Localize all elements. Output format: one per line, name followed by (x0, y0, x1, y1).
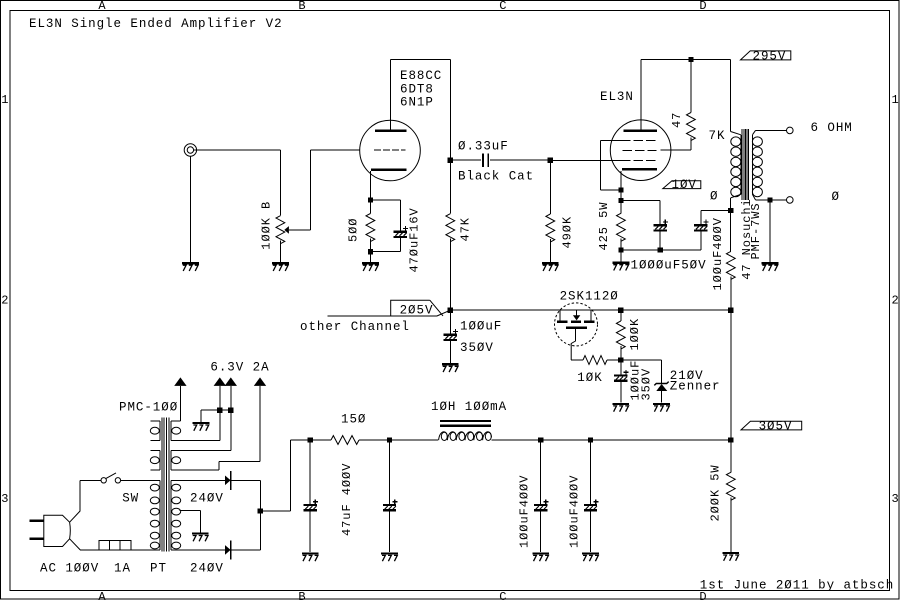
node grid junction (548, 158, 553, 163)
node OPT bottom feed (728, 208, 733, 213)
label 100uF400V (711, 217, 725, 290)
ground at EL3N cathode (613, 263, 630, 271)
label 425 5W (597, 202, 611, 251)
label 100uF 350V gate (629, 360, 654, 401)
label SW (122, 491, 139, 505)
label 100K B (259, 201, 273, 250)
ground at gate cap (612, 404, 629, 412)
svg-text:1ØØØuF5ØV: 1ØØØuF5ØV (631, 259, 707, 273)
label Black Cat (458, 170, 534, 184)
svg-text:47ØuF16V: 47ØuF16V (408, 207, 422, 272)
resistor 500 (366, 214, 375, 242)
capacitor 47uF 400V a (304, 440, 318, 552)
svg-text:Ø: Ø (832, 190, 840, 204)
heater lead arrow 3 (171, 377, 237, 450)
resistor 150 (331, 436, 359, 445)
transformer core (742, 129, 749, 200)
capacitor 100uF400V b (584, 440, 598, 552)
label 1000uF50V (631, 259, 707, 273)
capacitor 100uF 350V gate (614, 360, 628, 403)
flag 205V (391, 300, 443, 318)
label 100uF400V a (518, 475, 532, 548)
capacitor 47uF 400V b (383, 440, 397, 552)
svg-text:1ØH 1ØØmA: 1ØH 1ØØmA (431, 400, 507, 414)
svg-text:PT: PT (150, 562, 167, 576)
MOSFET Q1 2SK1120 (555, 303, 598, 360)
svg-text:49ØK: 49ØK (561, 216, 575, 249)
node B+ 305V to 205V regulator (728, 308, 733, 313)
resistor 47K (446, 160, 455, 310)
pentode V2 EL3N (610, 120, 671, 181)
wire plate to top rail (390, 59, 450, 130)
ground at cap b (381, 553, 398, 561)
capacitor 0.33uF coupling (450, 154, 550, 167)
svg-text:6 OHM: 6 OHM (811, 121, 853, 135)
output jack 6 OHM (787, 127, 794, 134)
svg-text:B: B (298, 590, 306, 600)
wire resistor bottom to ground (369, 239, 371, 263)
svg-text:5ØØ: 5ØØ (347, 218, 361, 242)
output jack 0 (787, 197, 794, 204)
heater lead arrow 1 (171, 377, 187, 421)
label AC 100V 1A PT (40, 562, 167, 576)
capacitor 1000uF50V (654, 220, 668, 250)
node filter cap 4 (588, 437, 593, 442)
transformer T1 PMC-100 (150, 418, 180, 552)
wire grid node to EL3N g1 (550, 159, 621, 161)
svg-text:7K: 7K (709, 129, 726, 143)
wire cathode node to 1000uF (621, 200, 660, 225)
node filter cap 1 (308, 437, 313, 442)
svg-text:15Ø: 15Ø (341, 413, 366, 427)
wire pot top drop (279, 150, 281, 216)
wire diode1 to node (231, 480, 261, 550)
label 6 OHM (811, 121, 853, 135)
heater lead arrow 4 (171, 377, 266, 470)
ground at cap d (582, 553, 599, 561)
svg-text:2: 2 (1, 294, 9, 308)
label 240V top (190, 491, 224, 505)
svg-text:B: B (298, 0, 306, 13)
svg-text:A: A (98, 590, 106, 600)
node 1000uF bottom (658, 247, 663, 252)
svg-text:other Channel: other Channel (300, 320, 410, 334)
svg-text:2ØØK 5W: 2ØØK 5W (709, 464, 723, 521)
capacitor 470uF16V (394, 226, 408, 237)
svg-text:6.3V 2A: 6.3V 2A (210, 360, 269, 374)
diode D1 (225, 471, 231, 490)
svg-text:PMF-7WS: PMF-7WS (749, 202, 763, 259)
svg-text:1ØØuF4ØØV: 1ØØuF4ØØV (518, 475, 532, 548)
wire jack ground drop (189, 156, 191, 262)
wire B+ vertical to PSU rail (730, 310, 732, 440)
ground at input jack (182, 263, 199, 271)
svg-text:1ØK: 1ØK (577, 371, 602, 385)
label 47 (670, 112, 684, 128)
rail 205V/305V (450, 309, 731, 311)
svg-text:1ØØuF4ØØV: 1ØØuF4ØØV (711, 217, 725, 290)
potentiometer 100K B (276, 216, 310, 244)
flag 295V (741, 49, 791, 63)
triode V1 E88CC (360, 120, 421, 181)
wire wiper up to grid (310, 150, 360, 230)
svg-text:2SK112Ø: 2SK112Ø (560, 290, 619, 304)
ground at zener (653, 404, 670, 412)
node cathode g3 tie (618, 187, 623, 192)
node heater gnd a (217, 408, 222, 413)
svg-text:3: 3 (1, 492, 9, 506)
switch SW (101, 473, 121, 483)
svg-text:Zenner: Zenner (670, 380, 721, 394)
ground at centre tap (192, 534, 209, 542)
resistor 425 5W cathode (617, 213, 626, 250)
wire switch to primary (121, 479, 160, 481)
label 200K 5W (709, 464, 723, 521)
resistor 490K grid leak (546, 160, 555, 262)
svg-text:C: C (499, 0, 507, 13)
svg-text:EL3N Single Ended Amplifier V2: EL3N Single Ended Amplifier V2 (29, 17, 283, 31)
wire HV bottom to diode (171, 549, 225, 551)
ground at secondary (762, 263, 779, 271)
label 100uF400V b (568, 475, 582, 548)
label 210V Zenner (670, 369, 721, 394)
svg-text:6DT8: 6DT8 (400, 82, 434, 96)
wire gate node to zener (621, 360, 662, 384)
node cathode bottom (368, 249, 373, 254)
label 0.33uF (458, 140, 509, 154)
label 47uF 400V (340, 463, 354, 536)
resistor 200K 5W bleeder (726, 440, 735, 552)
label 240V bottom (190, 562, 224, 576)
label 10K (577, 371, 602, 385)
label 7K (709, 129, 726, 143)
ground at pot (272, 263, 289, 271)
wire plug top to switch (70, 480, 101, 522)
heater lead arrow 2 (171, 377, 226, 440)
svg-text:47uF 4ØØV: 47uF 4ØØV (340, 463, 354, 536)
wire secondary ground drop (769, 200, 771, 262)
label 47K (459, 217, 473, 241)
rail choke to 305V (491, 439, 730, 441)
capacitor 100uF400V output stage (694, 210, 708, 250)
svg-text:E88CC: E88CC (400, 69, 442, 83)
wire g3 bracket to cathode (600, 140, 621, 190)
flag 305V (741, 419, 802, 433)
label E88CC 6DT8 6N1P (400, 69, 442, 110)
wire rectifier to filter (260, 440, 331, 511)
choke 10H 100mA (439, 421, 492, 441)
wire 100uF to OPT bottom (701, 209, 731, 211)
label 100K (628, 318, 642, 351)
wire fuse to primary (131, 549, 160, 551)
date/author text (700, 579, 894, 593)
svg-text:EL3N: EL3N (600, 90, 634, 104)
wire EL3N cathode drop (620, 171, 622, 213)
svg-text:35ØV: 35ØV (639, 368, 653, 401)
svg-text:24ØV: 24ØV (190, 491, 224, 505)
wire EL3N plate to rail (641, 59, 731, 130)
flag 10V (663, 178, 701, 192)
label EL3N (600, 90, 634, 104)
svg-text:3: 3 (892, 492, 900, 506)
svg-text:A: A (98, 0, 106, 13)
resistor 47 B+ dropper (726, 251, 735, 310)
label 6.3V 2A (210, 360, 269, 374)
ground at cap a (302, 553, 319, 561)
svg-text:47K: 47K (459, 217, 473, 241)
label 100uF (460, 320, 502, 334)
node heater gnd b (228, 408, 233, 413)
label PMC-100 (119, 401, 178, 415)
svg-text:1: 1 (1, 93, 9, 107)
resistor 47 screen (661, 59, 696, 150)
title text (29, 17, 283, 31)
zener diode 210V (654, 382, 668, 403)
label 470uF16V (408, 207, 422, 272)
node filter cap 3 (538, 437, 543, 442)
label 0 left (710, 189, 718, 203)
svg-text:1ØØuF4ØØV: 1ØØuF4ØØV (568, 475, 582, 548)
ground at cathode resistor (362, 263, 379, 271)
wire cathode drop (369, 171, 371, 214)
label 0 right (832, 190, 840, 204)
resistor 100K bias (616, 310, 625, 360)
svg-text:AC 1ØØV: AC 1ØØV (40, 562, 99, 576)
svg-text:425 5W: 425 5W (597, 202, 611, 251)
AC plug P1 (30, 515, 71, 546)
wire plug bottom to fuse (70, 539, 99, 550)
wire diode2 to node (231, 549, 261, 551)
transformer T2 output 7K primary (731, 59, 741, 251)
bottom tie rail cathode network (621, 249, 701, 251)
resistor 10K gate (571, 356, 621, 365)
svg-text:47: 47 (670, 112, 684, 128)
node screen feed on rail (688, 57, 693, 62)
label 10H 100mA (431, 400, 507, 414)
svg-text:Black Cat: Black Cat (458, 170, 534, 184)
svg-text:PMC-1ØØ: PMC-1ØØ (119, 401, 178, 415)
node gate bias (618, 357, 623, 362)
node cathode top (368, 198, 373, 203)
wire bypass cap bottom (370, 237, 400, 252)
wire cathode node to bypass cap (370, 200, 400, 232)
rail 150 to choke (359, 439, 438, 441)
node 425 bottom (618, 247, 623, 252)
svg-text:6N1P: 6N1P (400, 96, 434, 110)
ground at heater (193, 423, 210, 431)
capacitor 100uF400V a (534, 440, 548, 552)
node secondary ground tie (767, 197, 772, 202)
ground at reservoir (442, 364, 459, 372)
diode D2 (225, 540, 231, 559)
node rectifier output (258, 508, 263, 513)
wire jack to pot top (194, 149, 281, 151)
node plate/coupling junction (448, 158, 453, 163)
input jack J1 (184, 144, 196, 156)
wire HV centre tap (180, 510, 201, 532)
node filter cap 2 (387, 437, 392, 442)
svg-text:Ø: Ø (710, 189, 718, 203)
wire plate rail down to coupling node (449, 59, 451, 160)
wire pot bottom to ground (279, 241, 281, 262)
svg-text:D: D (699, 0, 707, 13)
fuse 1A (99, 540, 131, 550)
node 205V reservoir tap (448, 308, 453, 313)
label 47 Noguchi PMF-7WS (740, 198, 763, 280)
svg-text:1ØV: 1ØV (672, 178, 697, 192)
node bleeder top (728, 437, 733, 442)
node 100K top on rail (618, 308, 623, 313)
wire to cathode ground (620, 250, 622, 261)
svg-text:1ØØK: 1ØØK (628, 318, 642, 351)
label 490K (561, 216, 575, 249)
label 150 (341, 413, 366, 427)
svg-text:1st June 2Ø11 by atbsch: 1st June 2Ø11 by atbsch (700, 579, 894, 593)
svg-text:24ØV: 24ØV (190, 562, 224, 576)
capacitor 100uF 350V reservoir (444, 310, 458, 363)
svg-text:C: C (499, 590, 507, 600)
wire other channel feed (328, 310, 451, 316)
ground at bleeder (722, 553, 739, 561)
node cathode bypass tie (618, 198, 623, 203)
transformer secondary 6 ohm (752, 130, 786, 200)
label other Channel (300, 320, 410, 334)
label 500 (347, 218, 361, 242)
svg-text:SW: SW (122, 491, 139, 505)
wire heater ground bracket (201, 410, 231, 422)
svg-text:Ø.33uF: Ø.33uF (458, 140, 509, 154)
svg-text:1A: 1A (114, 562, 131, 576)
svg-text:35ØV: 35ØV (460, 341, 494, 355)
wire HV top to diode (171, 479, 225, 481)
svg-text:1: 1 (892, 93, 900, 107)
svg-text:1ØØK B: 1ØØK B (259, 201, 273, 250)
ground at cap c (532, 553, 549, 561)
label 350V (460, 341, 494, 355)
svg-text:2: 2 (892, 294, 900, 308)
label 2SK1120 (560, 290, 619, 304)
svg-text:1ØØuF: 1ØØuF (460, 320, 502, 334)
ground at grid leak (542, 263, 559, 271)
svg-text:3Ø5V: 3Ø5V (759, 419, 793, 433)
svg-text:295V: 295V (753, 49, 787, 63)
